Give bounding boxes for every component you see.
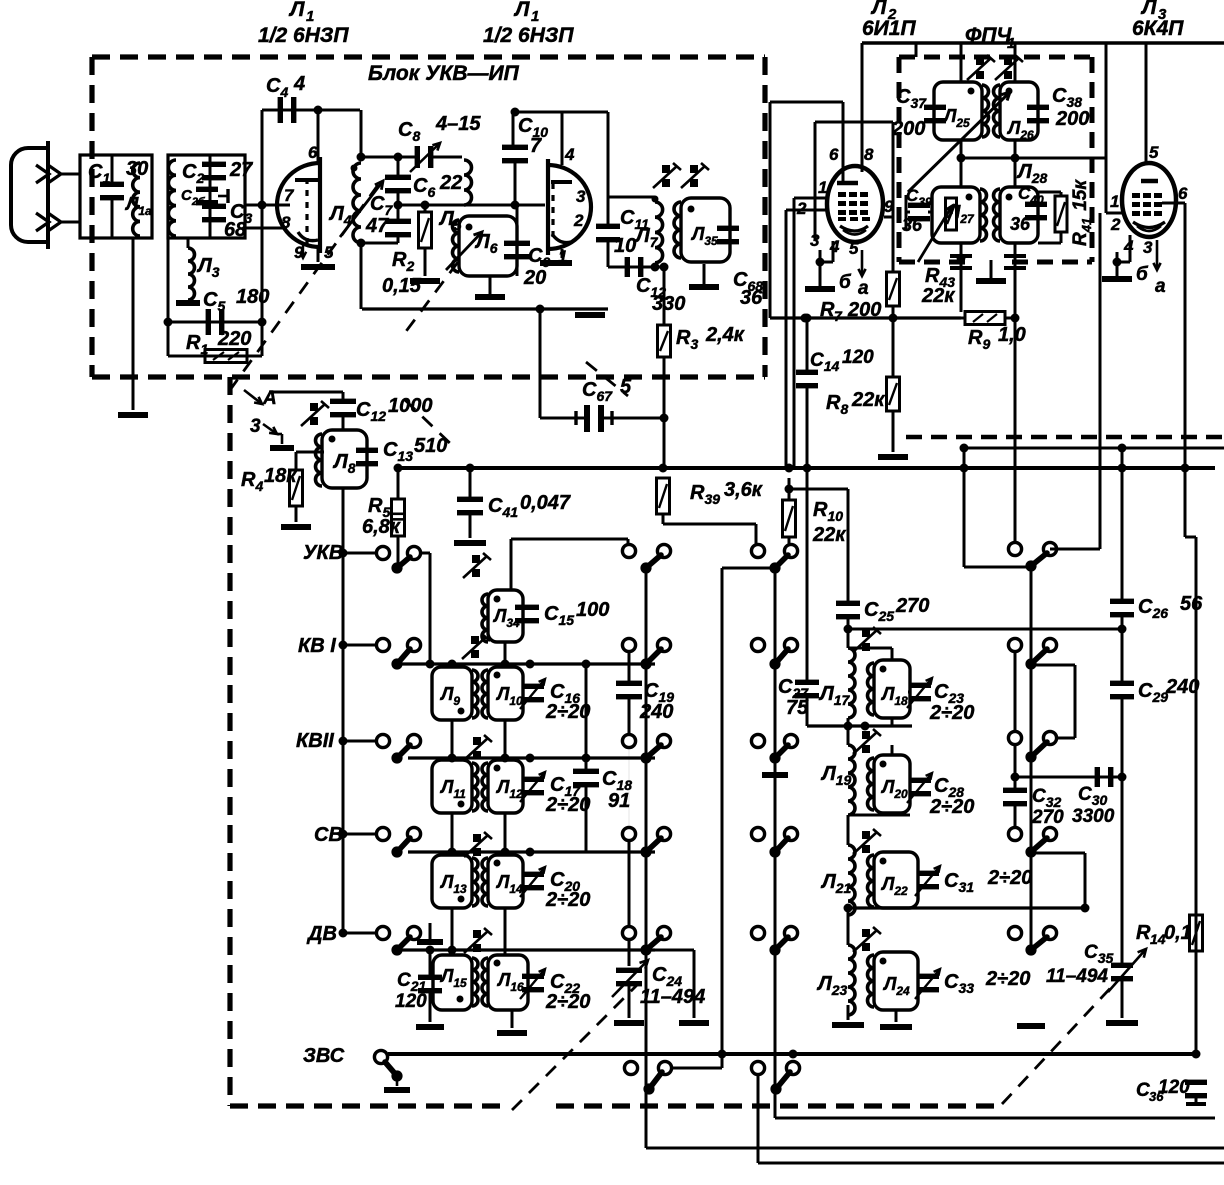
svg-text:2÷20: 2÷20 <box>545 794 590 816</box>
svg-text:22: 22 <box>439 172 462 194</box>
svg-text:КВII: КВII <box>296 730 334 752</box>
svg-text:2÷20: 2÷20 <box>929 796 974 818</box>
svg-text:240: 240 <box>1165 676 1199 698</box>
svg-text:6: 6 <box>829 145 839 164</box>
svg-text:1/2 6НЗП: 1/2 6НЗП <box>483 24 574 47</box>
svg-text:2÷20: 2÷20 <box>545 991 590 1013</box>
svg-text:Блок УКВ—ИП: Блок УКВ—ИП <box>368 62 520 85</box>
svg-text:a: a <box>858 278 869 299</box>
svg-text:3: 3 <box>576 187 586 206</box>
svg-text:2÷20: 2÷20 <box>545 701 590 723</box>
svg-text:100: 100 <box>576 599 609 621</box>
svg-text:1: 1 <box>818 178 827 197</box>
svg-text:a: a <box>1155 276 1166 297</box>
svg-text:Л: Л <box>288 0 305 21</box>
svg-text:91: 91 <box>608 790 630 812</box>
svg-text:180: 180 <box>236 286 269 308</box>
svg-text:510: 510 <box>414 435 447 457</box>
svg-text:КВ I: КВ I <box>298 635 336 657</box>
svg-text:ЗВС: ЗВС <box>303 1045 345 1067</box>
svg-text:0,1: 0,1 <box>1164 922 1192 944</box>
svg-text:6: 6 <box>308 143 318 162</box>
svg-text:4: 4 <box>564 145 575 164</box>
svg-text:47: 47 <box>365 215 389 237</box>
svg-text:330: 330 <box>652 293 685 315</box>
svg-text:4–15: 4–15 <box>435 113 481 135</box>
svg-text:3,6к: 3,6к <box>724 479 763 501</box>
svg-text:УКВ: УКВ <box>303 542 343 564</box>
svg-text:1/2 6НЗП: 1/2 6НЗП <box>258 24 349 47</box>
svg-text:75: 75 <box>786 697 809 719</box>
svg-text:270: 270 <box>895 595 929 617</box>
svg-text:2: 2 <box>573 211 584 230</box>
svg-text:2,4к: 2,4к <box>705 324 745 346</box>
svg-text:C: C <box>1136 1080 1150 1101</box>
svg-text:27: 27 <box>229 159 253 181</box>
svg-text:8: 8 <box>281 213 291 232</box>
svg-text:б: б <box>1136 264 1149 285</box>
svg-text:2÷20: 2÷20 <box>929 702 974 724</box>
svg-text:200: 200 <box>891 118 925 140</box>
svg-text:7: 7 <box>834 308 843 324</box>
svg-text:Л: Л <box>513 0 530 21</box>
svg-text:8: 8 <box>864 145 874 164</box>
svg-text:1: 1 <box>306 8 314 25</box>
svg-text:3: 3 <box>1143 238 1153 257</box>
svg-text:0,15: 0,15 <box>382 275 422 297</box>
svg-text:22к: 22к <box>851 389 885 411</box>
svg-text:5: 5 <box>1149 143 1159 162</box>
svg-text:120: 120 <box>842 347 874 368</box>
svg-text:220: 220 <box>217 328 251 350</box>
svg-text:2÷20: 2÷20 <box>545 889 590 911</box>
svg-text:68: 68 <box>224 219 247 241</box>
svg-text:18к: 18к <box>264 465 297 487</box>
svg-text:36: 36 <box>902 215 923 235</box>
svg-text:0,047: 0,047 <box>520 492 571 514</box>
svg-text:1: 1 <box>558 247 567 266</box>
svg-text:6К4П: 6К4П <box>1132 17 1184 40</box>
svg-text:1,0: 1,0 <box>998 324 1026 346</box>
svg-text:240: 240 <box>639 701 673 723</box>
svg-text:3300: 3300 <box>1072 806 1115 827</box>
svg-text:ДВ: ДВ <box>306 923 337 945</box>
svg-text:3: 3 <box>250 416 261 437</box>
svg-text:22к: 22к <box>921 285 955 307</box>
svg-text:36: 36 <box>740 287 763 309</box>
svg-text:20: 20 <box>523 267 546 289</box>
svg-text:б: б <box>839 272 852 293</box>
svg-text:120: 120 <box>1158 1077 1190 1098</box>
svg-text:9: 9 <box>884 197 894 216</box>
svg-text:R: R <box>1136 922 1151 944</box>
svg-text:10: 10 <box>614 235 636 257</box>
svg-text:1: 1 <box>531 8 539 25</box>
svg-text:9: 9 <box>294 243 304 262</box>
svg-text:5: 5 <box>849 239 859 258</box>
svg-text:СВ: СВ <box>314 824 343 846</box>
svg-text:6: 6 <box>1178 184 1188 203</box>
svg-text:7: 7 <box>284 186 295 205</box>
svg-text:1000: 1000 <box>388 395 433 417</box>
svg-text:56: 56 <box>1180 593 1203 615</box>
svg-text:2÷20: 2÷20 <box>987 867 1032 889</box>
svg-text:200: 200 <box>1055 108 1089 130</box>
svg-text:3: 3 <box>810 231 820 250</box>
svg-text:36: 36 <box>1010 214 1031 234</box>
svg-text:2: 2 <box>1110 215 1121 234</box>
svg-text:120: 120 <box>395 991 427 1012</box>
svg-text:6И1П: 6И1П <box>862 17 916 40</box>
svg-text:7: 7 <box>530 135 542 157</box>
svg-text:22к: 22к <box>812 524 846 546</box>
svg-text:270: 270 <box>1031 807 1064 828</box>
svg-text:6,8к: 6,8к <box>362 516 401 538</box>
svg-text:4: 4 <box>293 73 305 95</box>
svg-text:1: 1 <box>1110 192 1119 211</box>
svg-text:11–494: 11–494 <box>1046 966 1108 987</box>
svg-text:2÷20: 2÷20 <box>985 968 1030 990</box>
